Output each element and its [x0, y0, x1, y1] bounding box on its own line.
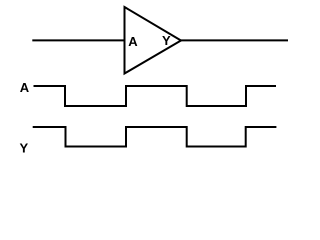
- svg-text:A: A: [20, 80, 30, 95]
- input wire (node A): [32, 39, 125, 41]
- svg-text:Y: Y: [19, 140, 28, 155]
- waveform A: [34, 86, 277, 106]
- buffer gate U1 (triangle): [125, 7, 182, 74]
- waveform Y: [33, 127, 277, 147]
- svg-text:Y: Y: [162, 33, 171, 48]
- output wire (node Y): [181, 39, 288, 41]
- svg-text:A: A: [128, 34, 138, 49]
